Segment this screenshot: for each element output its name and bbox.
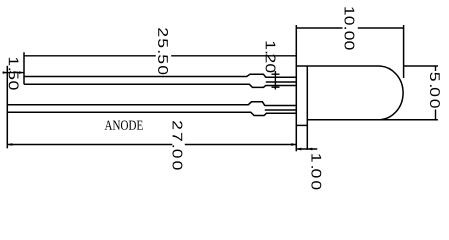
body bottom edge + extension line for 5.00: [307, 119, 438, 121]
body top edge: [296, 65, 378, 67]
arrow 27.00 right: [291, 143, 296, 146]
label 5.00: [430, 73, 440, 108]
label 1.00: [311, 154, 321, 189]
dim line 1.20 with perpendicular ticks: [272, 71, 280, 90]
dim line 5.00: [435, 66, 437, 120]
arrow 27.00 left: [7, 143, 12, 146]
dim line 25.50: [24, 55, 296, 57]
label 1.50: [9, 58, 19, 90]
label 25.50: [158, 28, 168, 74]
arrow 1.00 right: [307, 148, 312, 151]
extension line at lead A end: [6, 66, 8, 149]
label ANODE: [105, 121, 143, 130]
label 1.20: [266, 42, 276, 73]
lead K (top cathode lead with crimp bump): [24, 74, 296, 87]
dim line 1.50: [3, 72, 25, 74]
dome arc: [379, 66, 404, 120]
arrow 1.50 left: [3, 71, 8, 74]
arrow 1.00 left: [296, 148, 301, 151]
extension line top of 5.00: [404, 65, 438, 67]
lead A (bottom anode lead with crimp bump): [7, 102, 296, 116]
label 10.00: [345, 7, 355, 49]
dim line 1.00 with right tail: [296, 148, 317, 150]
dim line 27.00: [7, 144, 296, 146]
arrow 1.50 right: [19, 71, 24, 74]
body left edge + extension line for 10.00 and 1.00: [295, 25, 297, 151]
label 27.00: [173, 121, 183, 170]
extension line right of 10.00 (dome tip): [403, 25, 405, 78]
flange right edge + extension line for 1.00: [306, 66, 308, 150]
extension line at lead K end: [23, 52, 25, 84]
dim line 10.00: [296, 27, 403, 29]
flange bottom edge: [296, 124, 307, 126]
